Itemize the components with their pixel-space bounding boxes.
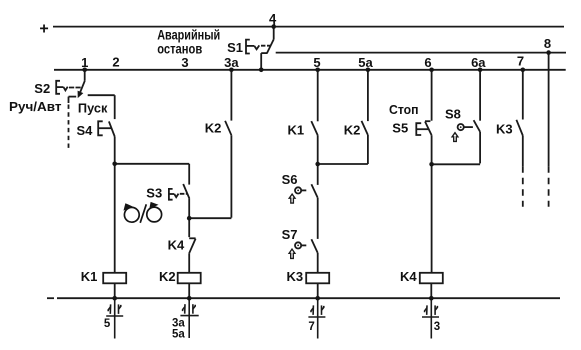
svg-text:6: 6 (424, 55, 431, 70)
svg-text:Пуск: Пуск (78, 100, 108, 115)
svg-text:Стоп: Стоп (389, 102, 419, 117)
svg-text:S1: S1 (227, 40, 243, 55)
svg-text:S7: S7 (282, 227, 298, 242)
svg-text:3: 3 (434, 321, 440, 333)
svg-text:7: 7 (517, 54, 524, 69)
svg-text:S4: S4 (77, 123, 94, 138)
svg-text:2: 2 (112, 54, 119, 69)
svg-text:3a: 3a (172, 317, 185, 329)
svg-text:K2: K2 (159, 269, 176, 284)
svg-text:останов: останов (157, 41, 202, 56)
svg-text:7: 7 (308, 321, 314, 333)
svg-text:S2: S2 (34, 81, 50, 96)
svg-text:S5: S5 (392, 120, 408, 135)
svg-text:S6: S6 (282, 172, 298, 187)
svg-text:8: 8 (544, 36, 551, 51)
svg-text:4: 4 (269, 11, 277, 26)
svg-text:3: 3 (181, 55, 188, 70)
svg-text:K2: K2 (344, 123, 361, 138)
svg-text:K1: K1 (81, 269, 98, 284)
svg-text:S8: S8 (445, 106, 461, 121)
svg-text:5: 5 (313, 55, 320, 70)
svg-text:Аварийный: Аварийный (157, 28, 220, 43)
svg-text:1: 1 (81, 55, 88, 70)
svg-text:K4: K4 (168, 237, 185, 252)
svg-text:Руч/Авт: Руч/Авт (9, 99, 62, 114)
svg-text:6a: 6a (471, 55, 486, 70)
svg-text:K1: K1 (288, 123, 305, 138)
svg-text:K3: K3 (496, 121, 513, 136)
svg-text:K4: K4 (400, 269, 417, 284)
svg-text:5: 5 (104, 318, 111, 330)
svg-text:5a: 5a (172, 329, 185, 341)
svg-text:5a: 5a (358, 55, 373, 70)
svg-text:K2: K2 (205, 121, 222, 136)
svg-text:3a: 3a (224, 55, 239, 70)
svg-text:S3: S3 (146, 185, 162, 200)
svg-text:+: + (39, 20, 48, 37)
svg-text:K3: K3 (287, 269, 304, 284)
